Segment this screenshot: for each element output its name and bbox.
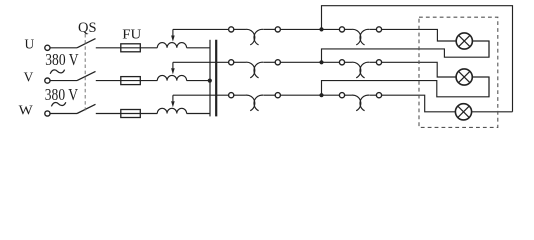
wire bbox=[345, 28, 352, 30]
wire bbox=[234, 28, 246, 30]
wire bbox=[50, 80, 77, 82]
winding crossover symbol 3a bbox=[246, 95, 255, 111]
node row2 junction bbox=[319, 60, 323, 64]
inductor coil L2 bbox=[157, 75, 186, 80]
wire bbox=[187, 80, 210, 82]
row 1 terminal c bbox=[339, 27, 344, 32]
lamp EL2 bbox=[456, 69, 472, 85]
wire bbox=[264, 28, 276, 30]
tap arrow 1 head bbox=[171, 36, 175, 42]
wire feed lamp 2 bbox=[382, 62, 457, 77]
wire bbox=[281, 28, 340, 30]
wire bbox=[264, 61, 276, 63]
row 3 terminal a bbox=[229, 93, 234, 98]
terminal V bbox=[45, 78, 50, 83]
row 2 terminal a bbox=[229, 60, 234, 65]
terminal U bbox=[45, 45, 50, 50]
wire return lamp 1 bbox=[472, 41, 489, 57]
wire bbox=[264, 94, 276, 96]
fuse FU1 bbox=[121, 44, 141, 52]
node row1 junction bbox=[319, 27, 323, 31]
switch QS pole 1 blade bbox=[77, 39, 96, 48]
tap arrow 3 stem bbox=[172, 95, 174, 101]
winding crossover symbol 1a bbox=[246, 29, 255, 45]
switch QS pole 2 blade bbox=[77, 71, 96, 80]
tap arrow 2 stem bbox=[172, 62, 174, 68]
row 3 terminal b bbox=[275, 93, 280, 98]
wire tap 3 bbox=[173, 94, 229, 96]
terminal W bbox=[45, 111, 50, 116]
svg-text:FU: FU bbox=[122, 27, 141, 42]
node row3 junction bbox=[319, 93, 323, 97]
junction dot V coil end bbox=[208, 79, 212, 83]
wire through fuse FU2 bbox=[121, 80, 158, 82]
wire return lamp 3 bbox=[472, 111, 513, 113]
wire bbox=[281, 94, 340, 96]
wire bbox=[187, 47, 210, 49]
row 3 terminal d bbox=[376, 93, 381, 98]
lamp EL3 bbox=[455, 104, 471, 120]
svg-text:V: V bbox=[24, 69, 34, 84]
ac tilde upper bbox=[50, 70, 64, 74]
load enclosure dashed box bbox=[419, 17, 498, 127]
svg-text:380 V: 380 V bbox=[45, 50, 78, 69]
wire bbox=[187, 113, 210, 115]
ac tilde lower bbox=[51, 102, 65, 106]
svg-text:U: U bbox=[24, 37, 34, 52]
fuse FU3 bbox=[121, 110, 141, 118]
switch QS interlink dashed line bbox=[84, 34, 86, 111]
svg-text:QS: QS bbox=[78, 20, 97, 36]
wire tap 2 bbox=[173, 61, 229, 63]
winding crossover symbol 3b bbox=[352, 95, 361, 111]
wire tap 1 bbox=[173, 28, 229, 30]
wire bbox=[96, 47, 121, 49]
wire through fuse FU1 bbox=[121, 47, 158, 49]
wire bbox=[345, 61, 352, 63]
wire return lamp 2 bbox=[472, 77, 489, 97]
switch QS pole 3 blade bbox=[77, 104, 96, 113]
inductor coil L3 bbox=[157, 108, 186, 113]
row 2 terminal c bbox=[339, 60, 344, 65]
wire bbox=[50, 47, 77, 49]
winding crossover symbol 1b bbox=[352, 29, 361, 45]
wire bbox=[281, 61, 340, 63]
tap arrow 2 head bbox=[171, 68, 175, 74]
wire bbox=[370, 61, 377, 63]
svg-text:W: W bbox=[19, 102, 34, 117]
wire bbox=[50, 113, 77, 115]
row 2 terminal d bbox=[376, 60, 381, 65]
winding crossover symbol 2a bbox=[246, 62, 255, 78]
row 1 terminal b bbox=[275, 27, 280, 32]
wire bbox=[234, 61, 246, 63]
tap arrow 1 stem bbox=[172, 29, 174, 35]
svg-text:380 V: 380 V bbox=[45, 85, 78, 104]
wire bbox=[345, 94, 352, 96]
lamp EL1 bbox=[456, 33, 472, 49]
wire through fuse FU3 bbox=[121, 113, 158, 115]
wire bbox=[370, 28, 377, 30]
wire riser phase1 top bus bbox=[322, 6, 513, 112]
tap arrow 3 head bbox=[171, 101, 175, 107]
wire riser phase3 bbox=[322, 77, 490, 97]
wire bbox=[96, 113, 121, 115]
fuse FU2 bbox=[121, 77, 141, 85]
winding crossover symbol 2b bbox=[352, 62, 361, 78]
row 1 terminal d bbox=[376, 27, 381, 32]
row 2 terminal b bbox=[275, 60, 280, 65]
wire feed lamp 1 bbox=[382, 29, 457, 41]
row 3 terminal c bbox=[339, 93, 344, 98]
row 1 terminal a bbox=[229, 27, 234, 32]
bus bar thick bbox=[215, 40, 217, 117]
wire bbox=[96, 80, 121, 82]
wire bbox=[234, 94, 246, 96]
wire feed lamp 3 bbox=[382, 95, 456, 112]
wire bbox=[370, 94, 377, 96]
bus bar thin bbox=[209, 40, 211, 117]
inductor coil L1 bbox=[157, 43, 186, 48]
wire riser phase2 bbox=[322, 41, 490, 62]
